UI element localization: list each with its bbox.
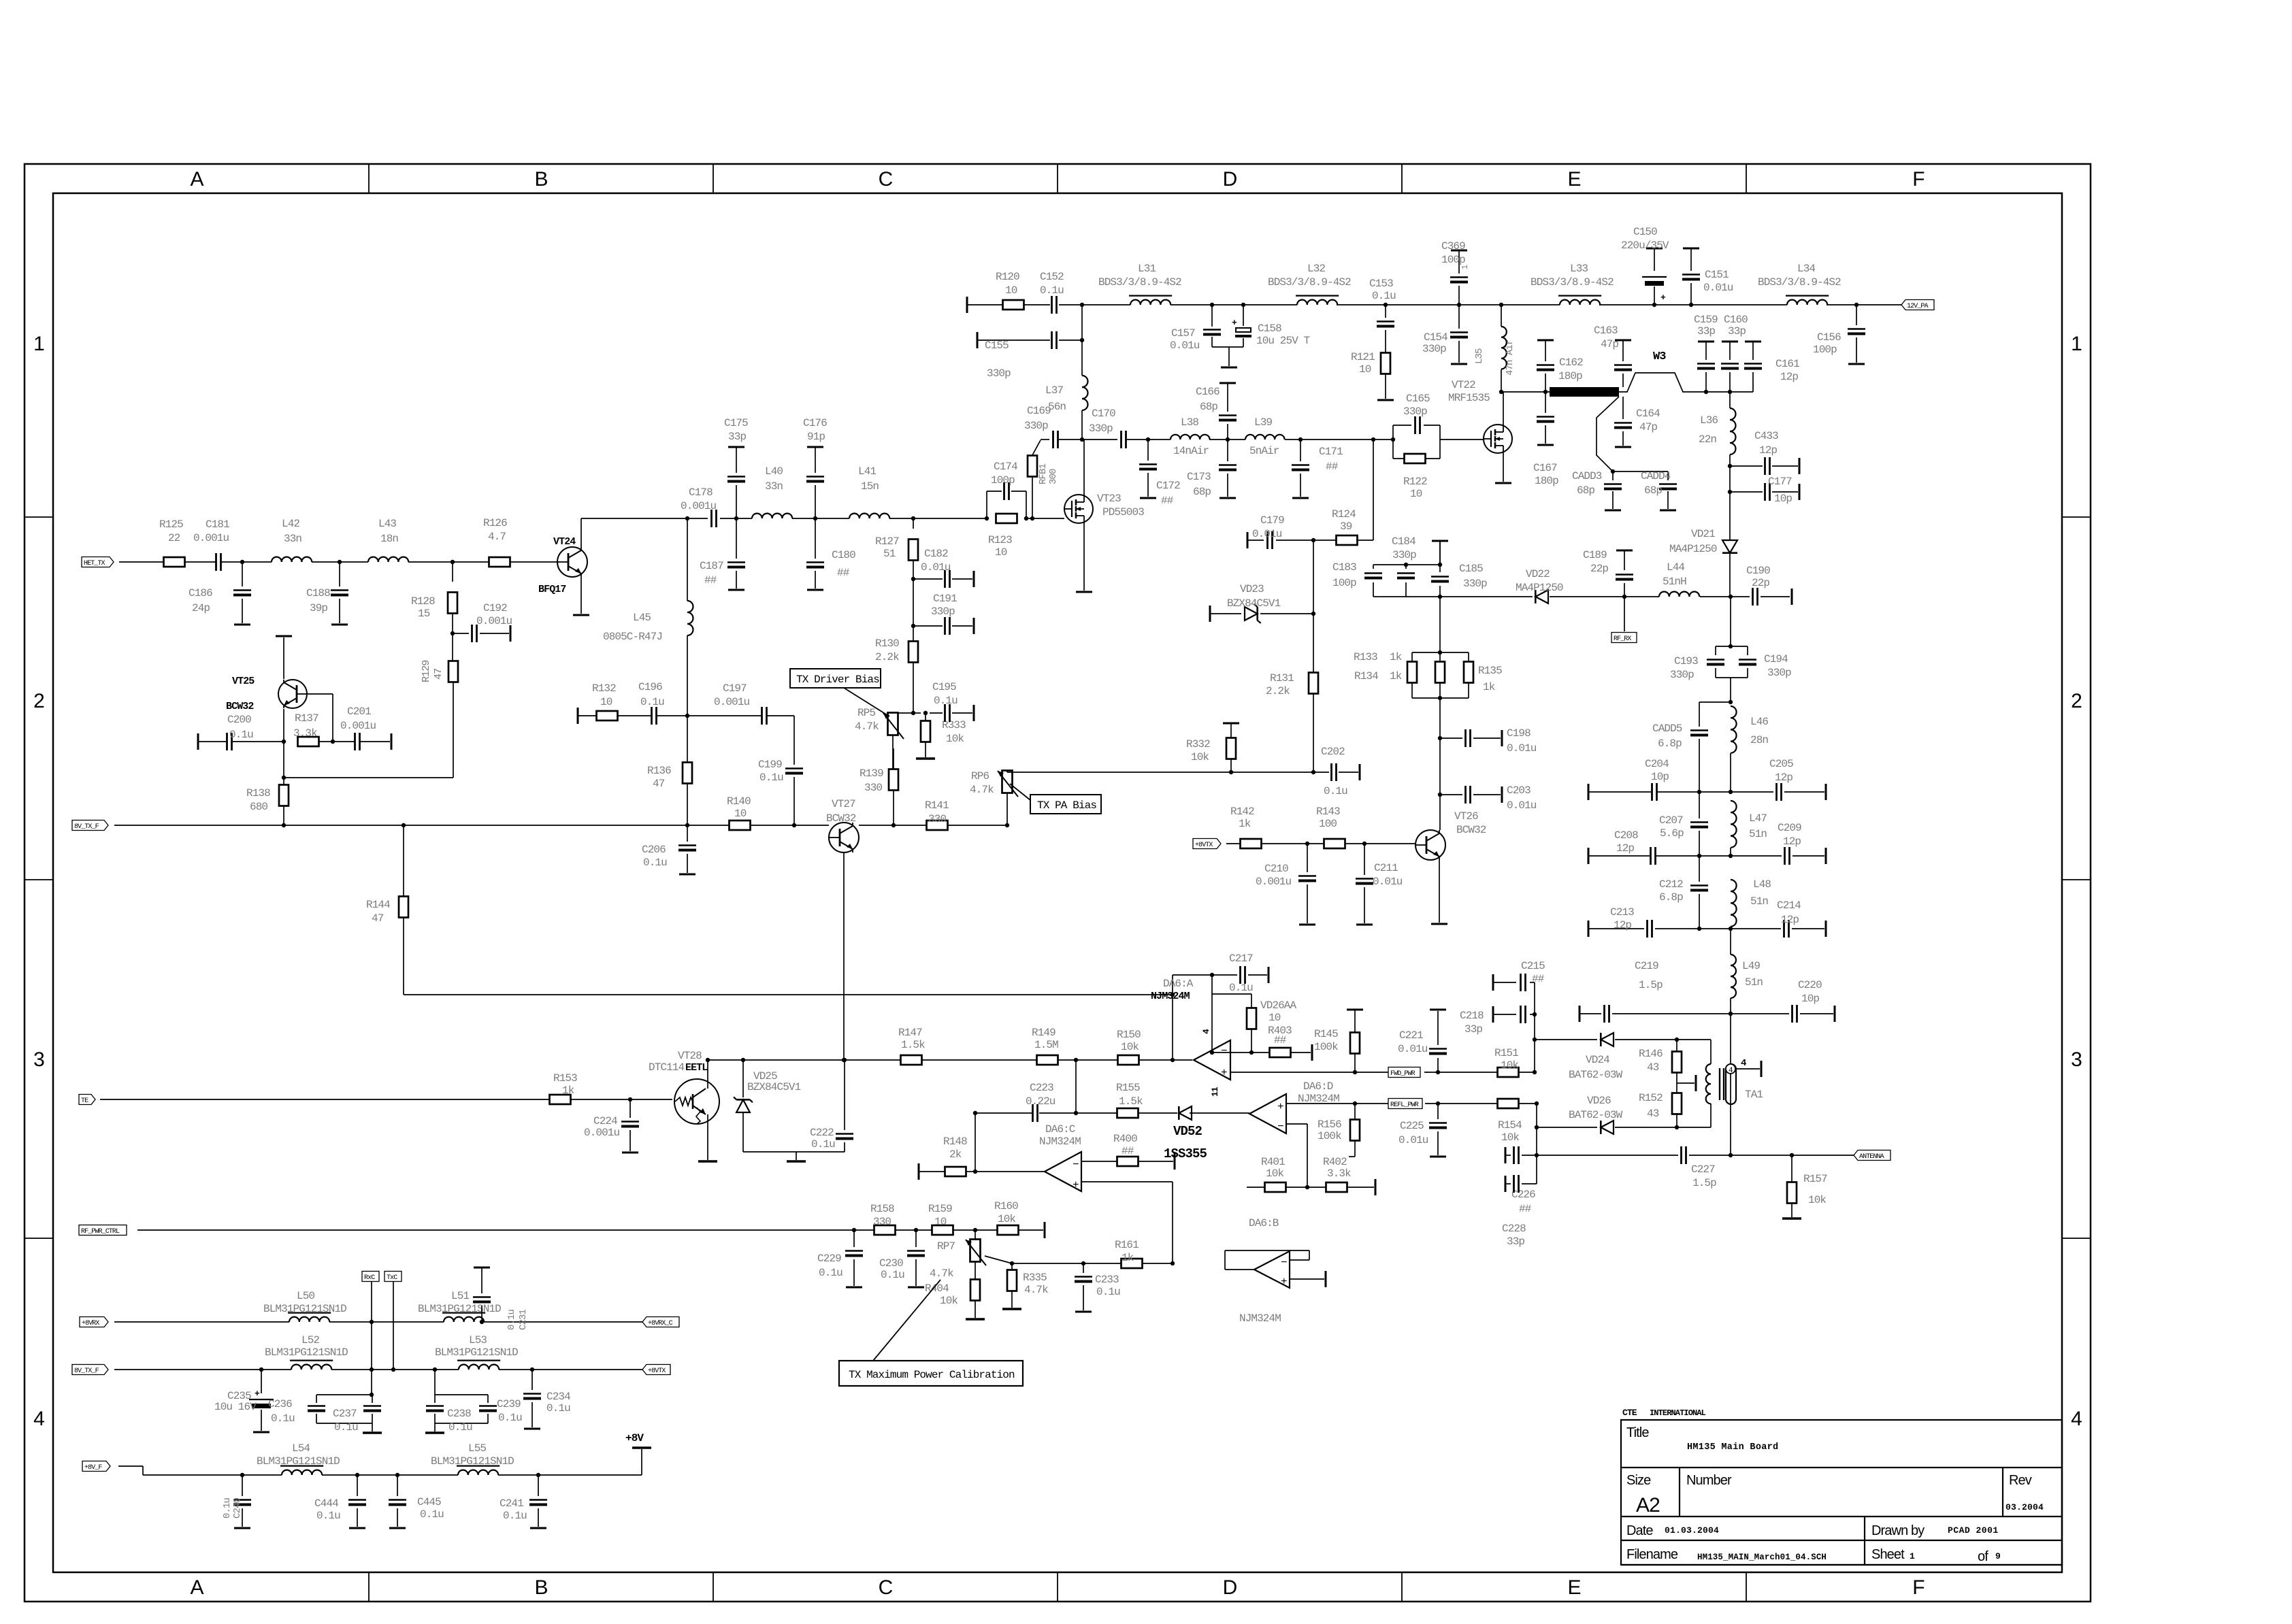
- svg-text:L51: L51: [451, 1290, 469, 1302]
- svg-text:C178: C178: [689, 486, 713, 499]
- svg-text:12p: 12p: [1775, 772, 1792, 784]
- capacitor C150: [1621, 226, 1669, 307]
- capacitor C163: [1594, 325, 1632, 387]
- wire rail-row link: [1075, 1060, 1077, 1113]
- svg-text:+8VTX: +8VTX: [1195, 842, 1213, 849]
- resistor R141: [925, 799, 949, 830]
- svg-text:10u 25V T: 10u 25V T: [1256, 335, 1310, 347]
- svg-text:BLM31PG121SN1D: BLM31PG121SN1D: [257, 1455, 340, 1468]
- svg-text:B: B: [534, 1576, 547, 1599]
- capacitor C159: [1694, 314, 1718, 394]
- wire L45 top: [685, 516, 689, 601]
- svg-text:24p: 24p: [192, 602, 210, 614]
- svg-text:22n: 22n: [1699, 433, 1716, 446]
- wire R144 row to opamp: [404, 994, 1173, 995]
- svg-text:NJM324M: NJM324M: [1151, 991, 1190, 1002]
- svg-text:1: 1: [1460, 265, 1470, 269]
- svg-text:BLM31PG121SN1D: BLM31PG121SN1D: [263, 1303, 346, 1315]
- svg-text:0.001u: 0.001u: [193, 532, 229, 544]
- svg-text:##: ##: [837, 567, 850, 579]
- svg-text:2.2k: 2.2k: [1266, 685, 1290, 697]
- svg-text:VD21: VD21: [1691, 528, 1715, 540]
- svg-text:10u 16V: 10u 16V: [214, 1401, 257, 1413]
- svg-text:C184: C184: [1392, 535, 1415, 548]
- svg-text:8V_TX_F: 8V_TX_F: [74, 823, 99, 831]
- capacitor C171: [1292, 437, 1343, 498]
- svg-text:220u/35V: 220u/35V: [1621, 239, 1669, 252]
- svg-text:8V_TX_F: 8V_TX_F: [74, 1368, 99, 1375]
- capacitor C155: [985, 331, 1057, 380]
- microstrip W3 bar: [1550, 387, 1619, 397]
- svg-text:BDS3/3/8.9-4S2: BDS3/3/8.9-4S2: [1268, 276, 1351, 288]
- capacitor C223: [1026, 1082, 1055, 1122]
- net flag RxC: [362, 1272, 379, 1282]
- svg-text:1SS355: 1SS355: [1164, 1146, 1207, 1161]
- node junction: [451, 560, 455, 564]
- svg-text:C217: C217: [1229, 952, 1253, 965]
- svg-text:TxC: TxC: [387, 1274, 397, 1282]
- svg-text:C229: C229: [817, 1253, 841, 1265]
- svg-text:10: 10: [734, 808, 747, 820]
- svg-text:0.1u: 0.1u: [640, 696, 664, 708]
- svg-text:1: 1: [2071, 333, 2082, 355]
- svg-text:BAT62-03W: BAT62-03W: [1569, 1069, 1623, 1081]
- capacitor C161: [1744, 342, 1799, 392]
- resistor R401: [1247, 1156, 1307, 1192]
- resistor R148: [919, 1136, 975, 1180]
- svg-text:C214: C214: [1777, 899, 1801, 912]
- svg-text:R126: R126: [483, 517, 507, 529]
- svg-text:DA6:C: DA6:C: [1045, 1123, 1075, 1136]
- svg-text:+: +: [1660, 293, 1666, 303]
- zone labels: [33, 168, 2082, 1599]
- wire DA6:C + input: [1081, 1182, 1175, 1265]
- svg-text:C175: C175: [724, 417, 748, 429]
- svg-text:R159: R159: [928, 1203, 952, 1215]
- wire DA6:A inputs: [1212, 1044, 1357, 1074]
- svg-text:RxC: RxC: [364, 1274, 375, 1282]
- svg-text:100p: 100p: [1441, 254, 1465, 266]
- svg-text:C445: C445: [417, 1496, 441, 1508]
- capacitor C241: [500, 1473, 547, 1528]
- svg-text:R131: R131: [1270, 672, 1294, 684]
- svg-text:0.1u: 0.1u: [420, 1508, 444, 1521]
- inductor L49: [1731, 929, 1763, 1014]
- svg-text:C213: C213: [1610, 906, 1634, 918]
- svg-text:C233: C233: [1095, 1274, 1119, 1286]
- svg-text:NJM324M: NJM324M: [1039, 1136, 1081, 1148]
- svg-text:D: D: [1223, 1576, 1237, 1599]
- svg-text:10: 10: [600, 696, 612, 708]
- net flag +8V_F: [82, 1461, 110, 1472]
- svg-text:C210: C210: [1264, 863, 1288, 875]
- resistor RFB1: [1028, 440, 1059, 520]
- svg-text:0.001u: 0.001u: [340, 720, 376, 732]
- svg-text:BDS3/3/8.9-4S2: BDS3/3/8.9-4S2: [1098, 276, 1181, 288]
- svg-text:##: ##: [1274, 1034, 1287, 1046]
- capacitor C175: [724, 417, 748, 518]
- svg-text:0.1u: 0.1u: [811, 1138, 835, 1150]
- inductor L45: [603, 601, 693, 763]
- wire VT25 emitter: [282, 709, 286, 778]
- svg-text:330p: 330p: [1403, 405, 1427, 418]
- svg-text:R400: R400: [1113, 1133, 1137, 1145]
- svg-text:MA4P1250: MA4P1250: [1516, 582, 1563, 594]
- svg-text:E: E: [1567, 168, 1580, 190]
- capacitor C178: [681, 486, 717, 527]
- svg-text:HM135 Main Board: HM135 Main Board: [1687, 1442, 1778, 1453]
- capacitor C190: [1746, 565, 1770, 606]
- svg-text:10: 10: [1359, 363, 1371, 376]
- svg-text:0.01u: 0.01u: [1252, 528, 1282, 540]
- svg-text:47p: 47p: [1639, 421, 1657, 433]
- svg-text:C197: C197: [723, 682, 747, 695]
- capacitor C203: [1438, 738, 1537, 812]
- resistor R159: [928, 1203, 953, 1235]
- capacitor C172: [1139, 437, 1180, 507]
- svg-text:0.001u: 0.001u: [681, 500, 717, 512]
- wire VT23 source: [1076, 523, 1092, 592]
- svg-text:CADD4: CADD4: [1641, 470, 1671, 482]
- wire TE row: [100, 1099, 672, 1100]
- svg-text:5nAir: 5nAir: [1249, 445, 1279, 457]
- resistor R404: [925, 1280, 985, 1320]
- svg-text:+: +: [1281, 1276, 1287, 1288]
- svg-text:0.1u: 0.1u: [1040, 284, 1064, 297]
- svg-text:F: F: [1912, 168, 1925, 190]
- svg-text:0.1u: 0.1u: [316, 1510, 340, 1522]
- inductor L39: [1245, 416, 1285, 457]
- svg-text:C231: C231: [518, 1309, 529, 1330]
- capacitor C217: [1173, 952, 1268, 994]
- svg-text:22: 22: [168, 532, 180, 544]
- svg-text:of: of: [1978, 1549, 1988, 1564]
- svg-text:C173: C173: [1187, 471, 1211, 483]
- svg-text:3: 3: [33, 1048, 44, 1071]
- svg-text:6.8p: 6.8p: [1659, 891, 1683, 904]
- svg-text:C174: C174: [994, 461, 1017, 473]
- capacitor C201: [340, 706, 376, 750]
- svg-text:C204: C204: [1645, 758, 1669, 770]
- capacitor C185: [1431, 541, 1487, 599]
- svg-text:C222: C222: [810, 1127, 834, 1139]
- capacitor C177: [1728, 466, 1799, 505]
- svg-text:C192: C192: [483, 602, 507, 614]
- svg-text:68p: 68p: [1644, 484, 1662, 497]
- svg-text:+: +: [1221, 1067, 1227, 1079]
- capacitor C236 C237 pair: [268, 1393, 382, 1434]
- svg-text:C165: C165: [1406, 393, 1430, 405]
- svg-text:C160: C160: [1724, 314, 1748, 326]
- svg-text:+: +: [1073, 1179, 1079, 1191]
- svg-text:33n: 33n: [284, 533, 301, 545]
- capacitor C433: [1728, 430, 1799, 475]
- resistor R127: [875, 516, 918, 579]
- svg-text:12p: 12p: [1781, 914, 1799, 926]
- svg-text:RF_RX: RF_RX: [1614, 635, 1631, 643]
- wire HET_TX row: [119, 561, 557, 563]
- inductor L54: [257, 1442, 340, 1475]
- svg-text:22p: 22p: [1590, 563, 1608, 575]
- svg-text:68p: 68p: [1577, 484, 1594, 497]
- svg-text:0.01u: 0.01u: [1398, 1043, 1428, 1055]
- svg-text:0.1u: 0.1u: [643, 857, 667, 869]
- resistor R136: [647, 763, 692, 828]
- wire DA6:B loop: [1225, 1250, 1326, 1287]
- svg-text:1.5M: 1.5M: [1034, 1039, 1058, 1051]
- resistor R333: [916, 711, 966, 759]
- net flag 8V_TX_F: [72, 1365, 108, 1376]
- capacitor C186: [189, 562, 251, 625]
- wire VT26 emitter: [1431, 860, 1447, 924]
- capacitor C192: [451, 602, 512, 661]
- svg-text:L42: L42: [282, 518, 299, 530]
- capacitor C196: [638, 681, 664, 725]
- svg-text:R161: R161: [1115, 1239, 1139, 1251]
- inductor L48: [1731, 878, 1771, 929]
- capacitor C179: [1247, 514, 1313, 549]
- wire VT25 base: [308, 694, 335, 744]
- svg-text:−: −: [1073, 1159, 1079, 1171]
- svg-text:C171: C171: [1319, 446, 1343, 458]
- svg-text:C163: C163: [1594, 325, 1618, 337]
- inductor L53: [435, 1334, 518, 1370]
- svg-text:L31: L31: [1138, 263, 1156, 275]
- resistor R150: [1117, 1029, 1141, 1065]
- svg-text:0.1u: 0.1u: [503, 1510, 527, 1522]
- svg-text:VT23: VT23: [1097, 493, 1121, 505]
- svg-text:L36: L36: [1700, 414, 1718, 427]
- resistor R151: [1494, 1047, 1519, 1077]
- capacitor C158: [1212, 303, 1310, 367]
- svg-text:C230: C230: [879, 1257, 903, 1270]
- svg-text:10p: 10p: [1801, 993, 1819, 1005]
- svg-text:56n: 56n: [1048, 401, 1066, 413]
- svg-text:−: −: [1277, 1121, 1283, 1133]
- svg-text:C207: C207: [1659, 814, 1683, 827]
- svg-text:0.22u: 0.22u: [1026, 1095, 1055, 1108]
- capacitor C228: [1502, 1175, 1537, 1248]
- svg-text:BLM31PG121SN1D: BLM31PG121SN1D: [418, 1303, 501, 1315]
- svg-text:BCW32: BCW32: [826, 812, 856, 825]
- wire DA6:C output: [973, 1111, 1045, 1174]
- wire CADD5 branch: [1699, 700, 1733, 704]
- svg-text:C180: C180: [832, 549, 855, 561]
- svg-text:L46: L46: [1750, 716, 1768, 728]
- svg-text:C208: C208: [1614, 829, 1638, 842]
- svg-text:C198: C198: [1507, 727, 1530, 740]
- svg-text:0.1u: 0.1u: [546, 1402, 570, 1414]
- capacitor C210: [1256, 842, 1316, 925]
- svg-text:Filename: Filename: [1626, 1547, 1678, 1562]
- svg-text:R136: R136: [647, 765, 671, 777]
- potentiometer RP5: [855, 707, 915, 769]
- net flag REFL_PWR: [1388, 1099, 1422, 1110]
- wire 8V_TX_F filter row: [114, 1369, 644, 1370]
- net flag RF_PWR_CTRL: [79, 1225, 127, 1236]
- capacitor C181: [193, 518, 229, 571]
- svg-text:47p: 47p: [1601, 338, 1618, 350]
- resistor R128: [411, 562, 457, 620]
- svg-text:R128: R128: [411, 595, 435, 608]
- svg-text:3: 3: [2071, 1048, 2082, 1071]
- svg-text:C164: C164: [1636, 408, 1660, 420]
- svg-text:47n Air: 47n Air: [1505, 339, 1516, 376]
- resistor R153: [550, 1072, 578, 1104]
- svg-text:R120: R120: [996, 271, 1019, 283]
- svg-text:C187: C187: [700, 560, 723, 572]
- wire C155 branch: [977, 305, 1084, 348]
- capacitor C166: [1196, 383, 1237, 440]
- capacitor C220: [1792, 979, 1822, 1023]
- resistor R121: [1351, 351, 1394, 400]
- svg-text:W3: W3: [1653, 350, 1666, 363]
- inductor L34: [1758, 263, 1841, 305]
- svg-text:R148: R148: [943, 1136, 967, 1148]
- wire C184 top column: [1439, 541, 1441, 565]
- svg-text:4.7k: 4.7k: [855, 720, 879, 733]
- inductor L51: [418, 1290, 501, 1322]
- svg-text:C189: C189: [1583, 549, 1607, 561]
- capacitor C209: [1778, 822, 1801, 865]
- inductor L31: [1098, 263, 1181, 305]
- svg-text:1k: 1k: [562, 1084, 574, 1097]
- wire FWD row: [1355, 1070, 1537, 1074]
- svg-text:C241: C241: [500, 1497, 523, 1510]
- svg-text:C151: C151: [1705, 269, 1729, 281]
- svg-text:C240: C240: [232, 1497, 243, 1519]
- capacitor C222: [810, 1060, 853, 1152]
- wire: [913, 579, 914, 626]
- op-amp DA6:A: [1151, 978, 1230, 1097]
- diode VD21: [1669, 492, 1737, 597]
- svg-text:R160: R160: [994, 1200, 1018, 1212]
- svg-text:L47: L47: [1749, 812, 1767, 825]
- svg-text:2: 2: [33, 690, 44, 712]
- transistor VT28: [649, 1050, 719, 1124]
- svg-text:L37: L37: [1045, 384, 1063, 397]
- svg-text:C227: C227: [1691, 1163, 1715, 1176]
- diode VD23 zener: [1210, 583, 1315, 623]
- capacitor C200: [227, 714, 254, 750]
- svg-text:L50: L50: [297, 1290, 314, 1302]
- svg-text:0.01u: 0.01u: [1170, 339, 1200, 352]
- wire drain row: [1041, 439, 1484, 440]
- resistor R140: [727, 795, 751, 830]
- svg-text:47: 47: [433, 669, 444, 680]
- diode VD24: [1533, 1033, 1711, 1081]
- svg-text:C218: C218: [1460, 1010, 1484, 1022]
- net flag TE: [79, 1095, 95, 1106]
- capacitor C157: [1170, 303, 1221, 352]
- svg-text:C196: C196: [638, 681, 662, 693]
- svg-text:C205: C205: [1769, 758, 1793, 770]
- svg-text:15: 15: [418, 608, 430, 620]
- resistor R158: [870, 1203, 896, 1235]
- svg-text:C177: C177: [1768, 476, 1792, 488]
- svg-text:51n: 51n: [1750, 895, 1768, 908]
- svg-text:VD26: VD26: [1587, 1095, 1611, 1107]
- svg-text:L41: L41: [858, 465, 876, 478]
- mosfet VT23: [1064, 493, 1144, 523]
- svg-text:R123: R123: [988, 534, 1012, 546]
- svg-text:C238: C238: [447, 1408, 471, 1420]
- transistor VT27: [826, 798, 859, 852]
- svg-text:330: 330: [928, 813, 946, 825]
- svg-text:C215: C215: [1521, 960, 1545, 972]
- svg-text:VT26: VT26: [1454, 810, 1478, 823]
- svg-text:10p: 10p: [1651, 771, 1669, 783]
- capacitor C226: [1505, 1146, 1539, 1215]
- svg-text:0.1u: 0.1u: [222, 1497, 233, 1519]
- wire VT26 base row: [1226, 843, 1415, 844]
- svg-text:BCW32: BCW32: [226, 701, 254, 712]
- svg-text:0.1u: 0.1u: [229, 729, 253, 741]
- svg-text:4.7: 4.7: [488, 531, 506, 543]
- svg-text:10: 10: [1268, 1012, 1281, 1024]
- svg-text:B: B: [534, 168, 547, 190]
- svg-text:INTERNATIONAL: INTERNATIONAL: [1650, 1408, 1706, 1418]
- svg-text:4: 4: [1201, 1029, 1211, 1034]
- capacitor C240: [222, 1473, 251, 1528]
- svg-text:Title: Title: [1626, 1425, 1649, 1440]
- capacitor C238 C239 pair: [425, 1368, 522, 1434]
- node junction: [338, 560, 342, 564]
- wire VT24 collector: [581, 518, 708, 547]
- node junction: [813, 516, 817, 520]
- svg-text:+8V_F: +8V_F: [84, 1464, 102, 1472]
- svg-text:C203: C203: [1507, 784, 1530, 797]
- wire +8V_F row: [118, 1466, 642, 1475]
- svg-text:REFL_PWR: REFL_PWR: [1390, 1101, 1419, 1109]
- wire R132 row: [578, 708, 794, 724]
- svg-text:C183: C183: [1332, 561, 1356, 574]
- svg-text:0.1u: 0.1u: [1096, 1286, 1120, 1298]
- svg-text:HM135_MAIN_March01_04.SCH: HM135_MAIN_March01_04.SCH: [1697, 1553, 1827, 1562]
- capacitor CADD4: [1641, 470, 1677, 510]
- svg-text:DA6:D: DA6:D: [1303, 1080, 1333, 1093]
- svg-text:0.1u: 0.1u: [881, 1269, 904, 1281]
- svg-text:BZX84C5V1: BZX84C5V1: [747, 1081, 801, 1093]
- svg-text:+: +: [1277, 1101, 1283, 1113]
- svg-text:C226: C226: [1511, 1189, 1535, 1201]
- svg-text:R149: R149: [1032, 1027, 1055, 1039]
- svg-text:R140: R140: [727, 795, 751, 808]
- wire RP5 row: [913, 712, 943, 714]
- wire VT24 emitter: [573, 577, 589, 615]
- resistor R147: [898, 1027, 925, 1065]
- svg-text:10k: 10k: [940, 1295, 957, 1307]
- wire detector column FWD: [1534, 982, 1535, 1072]
- svg-text:C237: C237: [333, 1408, 357, 1420]
- net flag HET_TX: [82, 557, 114, 568]
- svg-text:C202: C202: [1321, 746, 1345, 758]
- svg-text:BFQ17: BFQ17: [538, 584, 566, 595]
- svg-text:0.1u: 0.1u: [271, 1412, 295, 1425]
- svg-text:68p: 68p: [1200, 401, 1217, 413]
- svg-text:MRF1535: MRF1535: [1448, 392, 1490, 404]
- capacitor C212: [1659, 856, 1708, 929]
- capacitor C445: [389, 1473, 444, 1528]
- wire row C213: [1588, 921, 1826, 937]
- inductor L32: [1268, 263, 1351, 305]
- svg-text:C236: C236: [268, 1398, 292, 1410]
- svg-text:Sheet: Sheet: [1871, 1547, 1905, 1562]
- capacitor C184: [1392, 535, 1416, 597]
- svg-text:1k: 1k: [1390, 651, 1402, 663]
- svg-text:Size: Size: [1626, 1473, 1651, 1488]
- wire VT26 collector: [1439, 795, 1441, 830]
